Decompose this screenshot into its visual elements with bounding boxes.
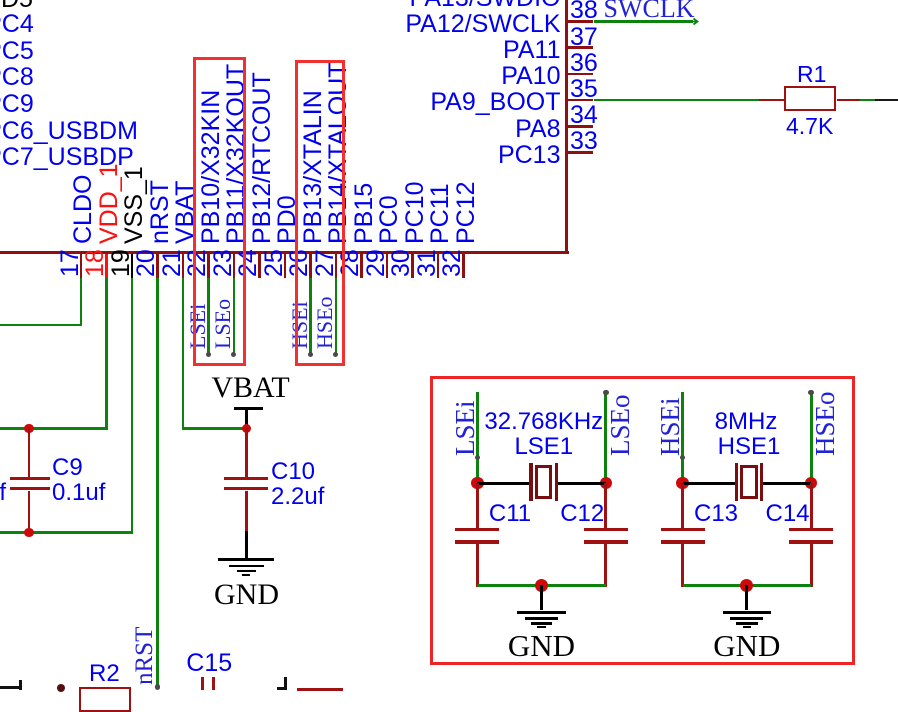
ground symbol bars under C10 [218,558,274,561]
pin number 20 [134,249,159,277]
pin number 26 [287,249,312,277]
capacitor C14 bottom lead [810,544,813,587]
wire pin35 to R1 [594,99,759,102]
wire after R1 (green) [860,99,875,102]
ground wire between C13 and C14 [683,584,812,587]
capacitor C12 bottom lead [604,544,607,587]
pin name PC10 [403,181,428,244]
designator C15 [186,651,232,676]
pin number 33 [570,129,598,154]
pin number 29 [364,249,389,277]
ground GND text (LSE1) [242,630,842,661]
pin 25 stub [284,254,287,278]
ground symbol stem (HSE1) [745,585,748,610]
pin 29 stub [386,254,389,278]
pin number 38 [570,0,598,23]
wire segment dot HSEi [680,455,686,461]
pin name PC7_USBDP (left side) [0,145,134,170]
pin name PB12/RTCOUT [250,72,275,244]
pin name PA13/SWDIO [0,0,561,11]
designator C11 [489,502,531,526]
junction dot C13 top [676,477,688,489]
designator C12 [560,502,604,526]
pin 19 stub [131,254,134,278]
wire after R1 (black) [875,99,898,102]
wire end dot LSEi [206,352,211,357]
ground symbol stem under C10 [245,531,248,560]
pin 27 stub [335,254,338,278]
net label LSEo [212,298,234,348]
SWCLK arrow [689,17,699,26]
ground symbol bars (LSE1) [517,611,565,614]
wire end dot LSEo [231,352,236,357]
designator HSE1 [449,435,898,459]
pin name PC9 (left side) [0,92,34,117]
crystal HSE1 right electrode [760,463,763,501]
wire VDD rail to C9 top [0,427,108,430]
pin name VDD_1 [97,163,122,244]
resistor R1 left lead [759,99,785,102]
pin name VBAT [173,180,198,243]
capacitor C13 bottom lead [681,544,684,587]
pin number 28 [338,249,363,277]
crystal HSE1 leads [683,482,737,485]
pin number 22 [185,249,210,277]
ground GND text [0,580,547,610]
wire VBAT to C10 junction [182,427,247,430]
capacitor C13 top lead [681,483,684,528]
wire pin22 LSEi [207,278,210,354]
pin number 34 [570,103,598,128]
pin name CLDO [71,174,96,243]
designator C10 [271,460,315,484]
capacitor C11 bottom lead [476,544,479,587]
pin name PC4 (left side) [0,12,34,37]
wire end dot LSEo [603,390,609,396]
pin name nRST [148,180,173,244]
highlight box PB13/PB14 pins [295,60,346,366]
junction dot VBAT/C10 [242,424,252,434]
capacitor C12 plates [584,528,628,531]
value 8MHz [446,410,898,434]
partial value text at left edge [0,481,6,505]
pin name VSS_1 [122,166,147,244]
pin 35 stub [568,99,594,102]
power port VBAT bar [234,407,263,410]
wire pin17 CLDO down [80,278,83,326]
wire SWCLK from pin 38 [594,20,694,23]
ground symbol bars (HSE1) [723,611,771,614]
partial junction dot bottom left [57,684,65,692]
crystal LSE1 body [535,465,552,500]
wire pin27 HSEo [335,278,338,354]
capacitor C11 plates [455,528,499,531]
pin number 18 [83,249,108,277]
resistor R1 body [784,86,836,112]
net label SWCLK [604,0,695,22]
designator R1 [797,63,826,86]
junction dot C12 top [600,477,612,489]
MCU U1 body right edge [565,0,568,254]
crystal HSE1 left electrode [735,463,738,501]
net label LSEo (inset) [607,394,634,456]
pin 23 stub [233,254,236,278]
wire pin21 VBAT down [182,278,185,430]
wire segment dot LSEi [475,455,481,461]
wire VSS rail to C9 bottom [0,531,133,534]
pin 32 stub [462,254,465,278]
pin 36 stub [568,73,594,76]
pin number 31 [415,249,440,277]
pin 28 stub [360,254,363,278]
pin 26 stub [309,254,312,278]
pin number 23 [211,249,236,277]
wire end dot HSEo [808,390,814,396]
ground wire between C11 and C12 [477,584,605,587]
pin 18 stub [105,254,108,278]
partial ground stem near C15 [284,677,287,691]
pin name PC6_USBDM (left side) [0,119,138,144]
pin number 25 [262,249,287,277]
power port VBAT text [0,373,551,403]
resistor R1 right lead [837,99,859,102]
pin name PA12/SWCLK [0,12,561,37]
designator C13 [694,502,738,526]
net label LSEi [187,303,209,348]
capacitor C14 plates [789,528,833,531]
pin name PA11 [0,38,561,63]
capacitor C12 top lead [604,483,607,528]
net label HSEo [314,296,336,349]
pin name PB14/XTALOUT [326,62,351,244]
wire pin20 nRST down [156,278,159,687]
pin name PA9_BOOT [0,90,561,115]
wire pin26 HSEi [309,278,312,354]
capacitor C14 top lead [810,483,813,528]
capacitor C11 top lead [476,483,479,528]
partial wire bottom left [0,686,19,689]
ground symbol stem (LSE1) [540,585,543,610]
designator C9 [52,456,83,480]
pin name D5 (left side, cut) [1,0,33,12]
capacitor C10 top lead [245,428,248,477]
crystal LSE1 left electrode [529,463,532,501]
pin name PB10/X32KIN [199,89,224,243]
wire end dot nRST [155,684,160,689]
pin name PC12 [454,181,479,244]
wire pin18 VDD_1 down [105,278,108,430]
highlight box PB10/PB11 pins [193,57,246,366]
wire LSEi vertical (inset) [476,392,479,483]
designator LSE1 [244,435,844,459]
pin 20 stub [156,254,159,278]
capacitor C15 plates (partial) [201,677,204,690]
junction dot C14 top [805,477,817,489]
pin name PA10 [0,64,561,89]
crystal HSE1 body [740,465,757,500]
net label HSEo (inset) [812,391,839,456]
pin name PC8 (left side) [0,65,34,90]
crystal LSE1 leads [477,482,531,485]
pin name PC11 [428,183,453,244]
wire pin23 LSEo [233,278,236,354]
capacitor C10 bottom lead [245,491,248,532]
junction dot C9 bottom [24,528,34,538]
capacitor C13 plates [661,528,705,531]
MCU U1 body bottom edge [0,251,569,254]
capacitor C9 plates [10,477,50,480]
value 32.768KHz [244,410,844,434]
pin name PC0 [377,195,402,244]
pin 21 stub [182,254,185,278]
pin name PC5 (left side) [0,39,34,64]
pin number 24 [236,249,261,277]
junction dot C11 top [471,477,483,489]
pin name PB11/X32KOUT [224,63,249,243]
pin number 21 [160,249,185,277]
pin number 17 [58,249,83,277]
pin name PA8 [0,117,561,142]
designator C14 [766,502,810,526]
pin number 35 [570,77,598,102]
value 0.1uf [52,481,105,505]
inset detail box [430,376,855,665]
pin 37 stub [568,46,594,49]
partial component edge bottom right [297,688,344,691]
pin 31 stub [437,254,440,278]
net label HSEi (inset) [657,397,684,456]
pin 22 stub [207,254,210,278]
pin name PC13 [0,143,561,168]
wire LSEo vertical (inset) [604,393,607,483]
junction dot C9 top [24,424,34,434]
ground GND text (HSE1) [447,630,898,661]
value 2.2uf [271,485,324,509]
pin number 27 [313,249,338,277]
pin 24 stub [258,254,261,278]
net label nRST [132,626,157,684]
pin 30 stub [411,254,414,278]
pin number 30 [389,249,414,277]
net label HSEi [289,301,311,349]
pin number 37 [570,25,598,50]
crystal LSE1 right electrode [555,463,558,501]
junction dot ground HSE1 [740,579,753,592]
designator R2 [89,662,120,686]
pin number 36 [570,51,598,76]
power port VBAT stem [245,408,248,428]
capacitor C9 top lead [28,428,31,477]
wire HSEi vertical (inset) [681,392,684,483]
wire HSEo vertical (inset) [810,393,813,483]
pin 33 stub [568,151,594,154]
pin number 32 [440,249,465,277]
pin name PB15 [352,182,377,243]
wire pin19 VSS_1 down [131,278,134,534]
value 4.7K [786,115,833,138]
pin 38 stub [568,20,594,23]
pin name PD0 [275,195,300,244]
junction dot ground LSE1 [535,579,548,592]
resistor R2 body (partial) [79,687,131,712]
capacitor C10 plates [224,477,268,480]
capacitor C9 bottom lead [28,491,31,534]
pin 17 stub [80,254,83,278]
pin name PB13/XTALIN [301,90,326,244]
pin number 19 [109,249,134,277]
wire end dot HSEo [333,352,338,357]
wire end dot HSEi [308,352,313,357]
pin 34 stub [568,125,594,128]
net label LSEi (inset) [452,400,479,456]
wire pin17 CLDO left to edge [0,324,82,327]
